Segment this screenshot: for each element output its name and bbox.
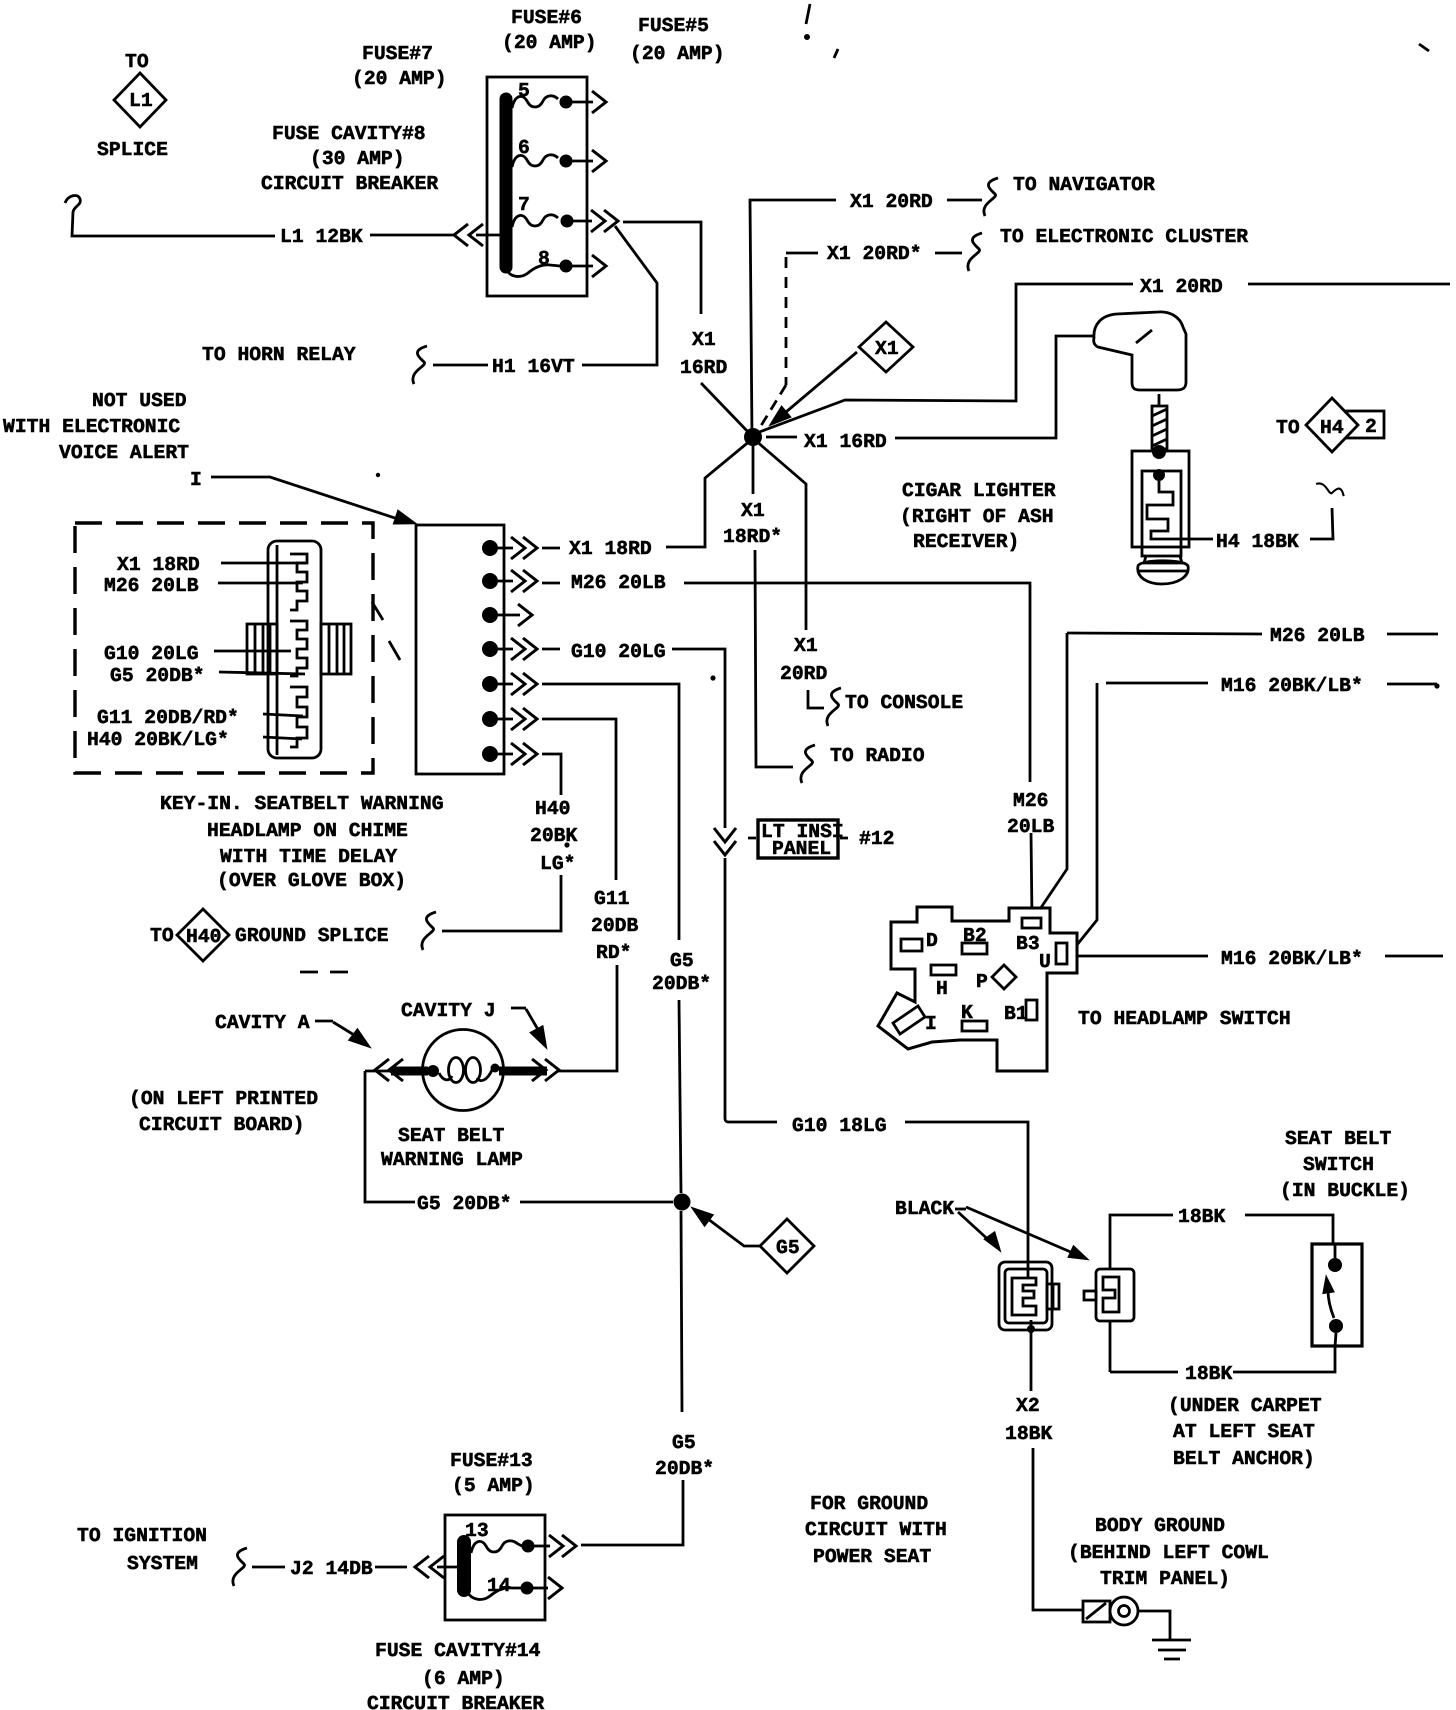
svg-text:G5: G5	[670, 950, 694, 972]
svg-text:BELT ANCHOR): BELT ANCHOR)	[1173, 1448, 1315, 1470]
svg-text:CIRCUIT BREAKER: CIRCUIT BREAKER	[261, 173, 438, 195]
svg-text:X1 20RD: X1 20RD	[1140, 276, 1223, 298]
svg-text:WARNING LAMP: WARNING LAMP	[381, 1149, 523, 1171]
svg-text:(6 AMP): (6 AMP)	[422, 1668, 505, 1690]
svg-text:18BK: 18BK	[1185, 1363, 1232, 1385]
svg-text:(OVER GLOVE BOX): (OVER GLOVE BOX)	[217, 870, 406, 892]
svg-text:(5 AMP): (5 AMP)	[452, 1475, 535, 1497]
svg-text:NOT USED: NOT USED	[92, 390, 187, 412]
svg-text:TRIM PANEL): TRIM PANEL)	[1100, 1568, 1230, 1590]
svg-text:X1: X1	[741, 500, 765, 522]
svg-text:G5: G5	[776, 1237, 800, 1259]
svg-text:FUSE#6: FUSE#6	[511, 7, 582, 29]
svg-text:CIRCUIT WITH: CIRCUIT WITH	[805, 1519, 947, 1541]
svg-text:POWER SEAT: POWER SEAT	[813, 1546, 931, 1568]
svg-text:RD*: RD*	[596, 942, 631, 964]
svg-text:FUSE CAVITY#14: FUSE CAVITY#14	[375, 1640, 541, 1662]
svg-text:HEADLAMP ON CHIME: HEADLAMP ON CHIME	[207, 820, 408, 842]
svg-text:CIGAR LIGHTER: CIGAR LIGHTER	[902, 480, 1056, 502]
svg-text:H4 18BK: H4 18BK	[1216, 531, 1299, 553]
svg-text:(IN BUCKLE): (IN BUCKLE)	[1280, 1180, 1410, 1202]
svg-text:K: K	[961, 1002, 973, 1024]
svg-text:L1 12BK: L1 12BK	[280, 226, 363, 248]
svg-text:CIRCUIT BREAKER: CIRCUIT BREAKER	[367, 1693, 544, 1710]
svg-text:B2: B2	[963, 925, 987, 947]
svg-text:TO HEADLAMP SWITCH: TO HEADLAMP SWITCH	[1078, 1008, 1291, 1030]
svg-text:X1: X1	[692, 329, 716, 351]
svg-text:TO: TO	[125, 51, 149, 73]
svg-text:20BK: 20BK	[530, 825, 577, 847]
svg-text:G11: G11	[594, 888, 629, 910]
svg-text:FOR GROUND: FOR GROUND	[810, 1493, 928, 1515]
svg-text:FUSE#13: FUSE#13	[450, 1450, 533, 1472]
svg-text:(BEHIND LEFT COWL: (BEHIND LEFT COWL	[1068, 1542, 1269, 1564]
svg-text:#12: #12	[859, 828, 894, 850]
svg-text:SPLICE: SPLICE	[97, 139, 168, 161]
svg-text:B3: B3	[1016, 933, 1040, 955]
svg-text:G11 20DB/RD*: G11 20DB/RD*	[97, 707, 239, 729]
svg-text:SWITCH: SWITCH	[1303, 1154, 1374, 1176]
svg-text:PANEL: PANEL	[772, 838, 831, 860]
svg-text:20RD: 20RD	[780, 663, 827, 685]
svg-text:SYSTEM: SYSTEM	[127, 1553, 198, 1575]
svg-text:U: U	[1039, 951, 1051, 973]
svg-text:TO: TO	[150, 925, 174, 947]
svg-text:RECEIVER): RECEIVER)	[913, 531, 1019, 553]
svg-text:J2 14DB: J2 14DB	[290, 1558, 373, 1580]
svg-text:(UNDER CARPET: (UNDER CARPET	[1168, 1395, 1322, 1417]
svg-text:TO NAVIGATOR: TO NAVIGATOR	[1013, 174, 1155, 196]
svg-text:FUSE#7: FUSE#7	[362, 43, 433, 65]
svg-text:(20 AMP): (20 AMP)	[352, 68, 447, 90]
svg-text:TO: TO	[1276, 417, 1300, 439]
svg-text:P: P	[976, 971, 988, 993]
svg-text:(20 AMP): (20 AMP)	[502, 32, 597, 54]
svg-text:X1 18RD: X1 18RD	[117, 554, 200, 576]
svg-text:G5 20DB*: G5 20DB*	[110, 665, 205, 687]
svg-text:CIRCUIT BOARD): CIRCUIT BOARD)	[139, 1114, 304, 1136]
svg-text:FUSE#5: FUSE#5	[638, 15, 709, 37]
svg-text:TO ELECTRONIC CLUSTER: TO ELECTRONIC CLUSTER	[1000, 226, 1248, 248]
svg-text:WITH ELECTRONIC: WITH ELECTRONIC	[3, 416, 180, 438]
svg-text:L1: L1	[129, 90, 153, 112]
svg-text:M26: M26	[1013, 790, 1048, 812]
svg-text:2: 2	[1365, 416, 1377, 438]
svg-text:M26 20LB: M26 20LB	[104, 575, 199, 597]
svg-text:G10 20LG: G10 20LG	[104, 643, 199, 665]
svg-text:FUSE CAVITY#8: FUSE CAVITY#8	[272, 123, 426, 145]
svg-text:7: 7	[518, 194, 530, 216]
svg-text:M26 20LB: M26 20LB	[1270, 625, 1365, 647]
svg-text:SEAT BELT: SEAT BELT	[1285, 1128, 1392, 1150]
svg-text:G10 18LG: G10 18LG	[792, 1115, 887, 1137]
svg-text:D: D	[926, 930, 938, 952]
svg-text:M16 20BK/LB*: M16 20BK/LB*	[1221, 948, 1363, 970]
svg-text:H40: H40	[535, 798, 570, 820]
svg-text:16RD: 16RD	[680, 357, 727, 379]
svg-text:BLACK: BLACK	[895, 1198, 954, 1220]
svg-text:18BK: 18BK	[1178, 1206, 1225, 1228]
svg-text:X1 20RD: X1 20RD	[850, 191, 933, 213]
svg-text:X2: X2	[1016, 1395, 1040, 1417]
svg-text:5: 5	[518, 80, 530, 102]
svg-text:M26 20LB: M26 20LB	[571, 572, 666, 594]
svg-text:14: 14	[487, 1575, 511, 1597]
svg-text:X1: X1	[875, 338, 899, 360]
svg-text:H40: H40	[186, 926, 221, 948]
svg-text:H: H	[936, 978, 948, 1000]
svg-text:TO RADIO: TO RADIO	[830, 745, 925, 767]
svg-text:CAVITY J: CAVITY J	[401, 1000, 496, 1022]
svg-text:6: 6	[518, 137, 530, 159]
svg-text:VOICE ALERT: VOICE ALERT	[59, 442, 189, 464]
svg-text:20DB*: 20DB*	[655, 1458, 714, 1480]
svg-text:I: I	[190, 469, 202, 491]
svg-text:(RIGHT OF ASH: (RIGHT OF ASH	[900, 506, 1054, 528]
svg-text:I: I	[925, 1013, 937, 1035]
svg-text:KEY-IN. SEATBELT WARNING: KEY-IN. SEATBELT WARNING	[160, 793, 444, 815]
svg-text:13: 13	[465, 1520, 489, 1542]
svg-text:8: 8	[538, 248, 550, 270]
svg-text:H4: H4	[1320, 417, 1344, 439]
svg-text:20DB*: 20DB*	[652, 973, 711, 995]
svg-text:H40 20BK/LG*: H40 20BK/LG*	[87, 729, 229, 751]
svg-text:WITH TIME DELAY: WITH TIME DELAY	[220, 846, 397, 868]
svg-text:AT LEFT SEAT: AT LEFT SEAT	[1173, 1421, 1315, 1443]
svg-text:18RD*: 18RD*	[723, 526, 782, 548]
svg-text:G10 20LG: G10 20LG	[571, 641, 666, 663]
svg-text:20DB: 20DB	[591, 915, 638, 937]
svg-text:(20 AMP): (20 AMP)	[630, 43, 725, 65]
svg-text:BODY GROUND: BODY GROUND	[1095, 1515, 1225, 1537]
svg-text:X1 20RD*: X1 20RD*	[827, 243, 922, 265]
svg-text:GROUND SPLICE: GROUND SPLICE	[235, 925, 389, 947]
svg-text:TO IGNITION: TO IGNITION	[77, 1525, 207, 1547]
svg-text:G5: G5	[672, 1432, 696, 1454]
svg-text:20LB: 20LB	[1007, 816, 1054, 838]
svg-text:18BK: 18BK	[1005, 1423, 1052, 1445]
svg-text:X1 18RD: X1 18RD	[569, 538, 652, 560]
svg-text:X1 16RD: X1 16RD	[804, 431, 887, 453]
svg-text:B1: B1	[1004, 1003, 1028, 1025]
svg-text:LG*: LG*	[540, 853, 575, 875]
svg-text:G5 20DB*: G5 20DB*	[417, 1193, 512, 1215]
svg-text:SEAT BELT: SEAT BELT	[398, 1125, 505, 1147]
svg-text:(ON LEFT PRINTED: (ON LEFT PRINTED	[129, 1088, 318, 1110]
svg-text:X1: X1	[794, 635, 818, 657]
svg-text:CAVITY A: CAVITY A	[215, 1012, 310, 1034]
svg-text:(30 AMP): (30 AMP)	[310, 148, 405, 170]
svg-text:H1 16VT: H1 16VT	[492, 356, 575, 378]
svg-text:TO CONSOLE: TO CONSOLE	[845, 692, 963, 714]
svg-text:M16 20BK/LB*: M16 20BK/LB*	[1221, 675, 1363, 697]
svg-text:TO HORN RELAY: TO HORN RELAY	[202, 344, 356, 366]
